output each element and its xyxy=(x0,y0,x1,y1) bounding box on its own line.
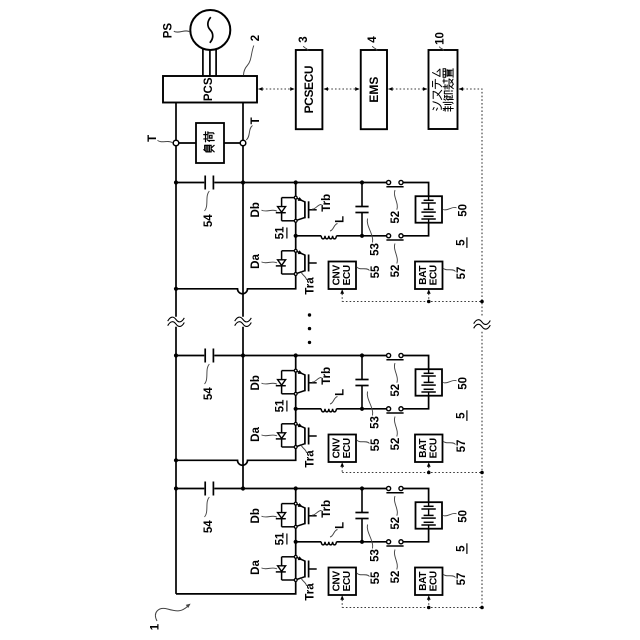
dashed communication line PCS-PCSECU xyxy=(258,87,294,91)
wire midpoint rail (unit 2) xyxy=(296,396,429,409)
diode Db xyxy=(282,503,295,505)
label Trb (unit 2) xyxy=(312,367,333,385)
svg-text:55: 55 xyxy=(370,438,382,451)
break symbol bus right xyxy=(235,317,252,322)
label Da (unit 2) xyxy=(250,427,277,442)
label 57 (unit 3) xyxy=(443,573,468,586)
transistor Trb xyxy=(294,196,316,222)
relay switch 52 (unit 1 upper) xyxy=(386,180,403,186)
break symbol bus left xyxy=(168,317,185,322)
label Tra (unit 2) xyxy=(301,444,316,468)
label 51 (unit 2) xyxy=(274,399,287,412)
node: control bus junctions (unit 3) xyxy=(427,606,484,610)
transistor Trb xyxy=(294,502,316,528)
battery 50 xyxy=(416,196,443,223)
diode Db xyxy=(282,197,295,199)
transistor Trb xyxy=(294,369,316,395)
label 5 (unit 2) xyxy=(455,410,467,421)
battery ECU (unit 1) xyxy=(415,262,443,290)
wire DC- bottom rail (unit 3) xyxy=(176,581,296,594)
label 54 (unit 2) xyxy=(203,364,215,400)
svg-text:Trb: Trb xyxy=(321,500,333,518)
label 52 lower (unit 2) xyxy=(390,417,402,451)
diode Da xyxy=(282,250,295,252)
capacitor 54 (unit 3) xyxy=(205,482,213,496)
svg-text:PCS: PCS xyxy=(203,77,215,101)
svg-text:51: 51 xyxy=(274,532,286,545)
PCS power conditioning system box 2 xyxy=(163,76,257,103)
converter ECU 56 (unit 2) xyxy=(329,435,357,463)
svg-text:EMS: EMS xyxy=(367,77,381,103)
svg-text:1: 1 xyxy=(149,623,161,630)
svg-text:2: 2 xyxy=(250,35,262,41)
node: top rail junctions (unit 3) xyxy=(174,486,364,490)
label 2 xyxy=(244,35,263,76)
svg-text:57: 57 xyxy=(456,573,468,586)
node: mid rail junctions (unit 3) xyxy=(294,540,365,544)
label Tra (unit 1) xyxy=(301,271,316,295)
svg-text:ECU: ECU xyxy=(342,571,353,591)
label 5 (unit 3) xyxy=(455,543,467,554)
inductor L (unit 3) xyxy=(321,542,336,545)
capacitor 53 (unit 2) xyxy=(355,356,368,409)
label 52 lower (unit 1) xyxy=(390,244,402,278)
svg-text:ECU: ECU xyxy=(429,438,440,458)
svg-text:55: 55 xyxy=(370,571,382,584)
capacitor 54 (unit 1) xyxy=(205,176,213,190)
label 52 lower (unit 3) xyxy=(390,550,402,584)
relay switch 52 (unit 3 lower) xyxy=(386,540,403,546)
svg-text:ECU: ECU xyxy=(342,438,353,458)
svg-text:55: 55 xyxy=(370,265,382,278)
label T left xyxy=(147,135,173,143)
node: bottom rail junction (unit 2) xyxy=(174,458,178,462)
dashed communication line EMS-system xyxy=(388,87,427,91)
wire AC bus right (node V) xyxy=(242,103,244,489)
battery 50 xyxy=(416,502,443,529)
wire DC+ top rail (unit 1) xyxy=(176,183,429,197)
terminal T right xyxy=(240,140,246,146)
label Db (unit 3) xyxy=(250,508,277,523)
transistor Tra xyxy=(294,249,316,275)
svg-text:Da: Da xyxy=(250,254,262,269)
label 53 (unit 1) xyxy=(367,219,381,256)
dashed control lines ECU to bus (unit 1) xyxy=(340,289,482,301)
label Db (unit 1) xyxy=(250,202,277,217)
svg-text:51: 51 xyxy=(274,399,286,412)
wire midpoint rail (unit 1) xyxy=(296,223,429,236)
svg-text:BAT: BAT xyxy=(418,572,429,591)
svg-text:Trb: Trb xyxy=(321,367,333,385)
svg-text:ECU: ECU xyxy=(342,265,353,285)
svg-text:5: 5 xyxy=(455,239,467,246)
svg-text:53: 53 xyxy=(370,416,382,429)
label 55 (unit 2) xyxy=(357,438,382,451)
transistor Tra xyxy=(294,555,316,581)
label 50 (unit 2) xyxy=(443,377,470,390)
diode Da xyxy=(282,556,295,558)
label 57 (unit 2) xyxy=(443,440,468,453)
label 50 (unit 3) xyxy=(443,510,470,523)
relay switch 52 (unit 1 lower) xyxy=(386,234,403,240)
inductor L label (unit 1) xyxy=(330,216,347,231)
svg-text:57: 57 xyxy=(456,440,468,453)
svg-text:52: 52 xyxy=(390,384,402,397)
svg-text:50: 50 xyxy=(458,377,470,390)
svg-text:5: 5 xyxy=(455,412,467,419)
label 51 (unit 1) xyxy=(274,226,287,239)
inductor L (unit 2) xyxy=(321,409,336,412)
svg-text:53: 53 xyxy=(370,243,382,256)
capacitor 54 (unit 2) xyxy=(205,349,213,363)
capacitor 53 (unit 1) xyxy=(355,183,368,236)
label Trb (unit 3) xyxy=(312,500,333,518)
wire DC+ top rail (unit 3) xyxy=(176,489,429,503)
wire DC+ top rail (unit 2) xyxy=(176,356,429,370)
svg-text:L: L xyxy=(335,522,347,529)
svg-text:Db: Db xyxy=(250,375,262,390)
svg-text:4: 4 xyxy=(367,36,379,43)
node: top rail junctions (unit 2) xyxy=(174,353,364,357)
wire 3-phase PS to PCS xyxy=(203,49,216,76)
label 52 upper (unit 3) xyxy=(390,496,402,529)
svg-text:52: 52 xyxy=(390,571,402,584)
svg-text:5: 5 xyxy=(455,545,467,552)
label 4 xyxy=(367,36,379,51)
dashed control bus xyxy=(459,87,482,607)
battery ECU (unit 2) xyxy=(415,435,443,463)
diode Db xyxy=(282,370,295,372)
svg-text:L: L xyxy=(335,389,347,396)
inductor L (unit 1) xyxy=(321,236,336,239)
node: control bus junctions (unit 2) xyxy=(427,471,484,475)
svg-text:CNV: CNV xyxy=(332,571,343,592)
dashed communication line PCSECU-EMS xyxy=(324,87,360,91)
svg-text:Trb: Trb xyxy=(321,194,333,212)
node: mid rail junctions (unit 2) xyxy=(294,407,365,411)
svg-text:Da: Da xyxy=(250,427,262,442)
svg-text:52: 52 xyxy=(390,211,402,224)
svg-text:3: 3 xyxy=(298,36,310,42)
label 54 (unit 1) xyxy=(203,191,215,227)
wire DC- bottom rail (unit 1) xyxy=(176,275,296,293)
system control unit box 10 xyxy=(429,50,458,129)
label 57 (unit 1) xyxy=(443,267,468,280)
capacitor 53 (unit 3) xyxy=(355,489,368,542)
svg-text:57: 57 xyxy=(456,267,468,280)
svg-text:52: 52 xyxy=(390,517,402,530)
label 54 (unit 3) xyxy=(203,497,215,533)
svg-text:50: 50 xyxy=(458,204,470,217)
svg-text:54: 54 xyxy=(203,214,215,227)
svg-text:10: 10 xyxy=(435,32,447,45)
label 55 (unit 3) xyxy=(357,571,382,584)
label Da (unit 1) xyxy=(250,254,277,269)
battery ECU (unit 3) xyxy=(415,568,443,596)
wire load to terminals xyxy=(179,142,240,144)
diode Da xyxy=(282,423,295,425)
svg-text:Da: Da xyxy=(250,560,262,575)
label 50 (unit 1) xyxy=(443,204,470,217)
wire DC- bottom rail (unit 2) xyxy=(176,448,296,465)
node: control bus junctions (unit 1) xyxy=(427,300,484,304)
vertical ellipsis (repeated units) xyxy=(308,313,311,344)
svg-text:L: L xyxy=(335,216,347,223)
EMS box 4 xyxy=(361,50,387,129)
svg-text:54: 54 xyxy=(203,520,215,533)
wire AC bus left (node U) xyxy=(175,103,177,594)
terminal T left xyxy=(173,140,179,146)
relay switch 52 (unit 3 upper) xyxy=(386,486,403,492)
relay switch 52 (unit 2 lower) xyxy=(386,407,403,413)
svg-text:BAT: BAT xyxy=(418,266,429,285)
node: mid rail junctions (unit 1) xyxy=(294,234,365,238)
svg-text:ECU: ECU xyxy=(429,571,440,591)
inductor L label (unit 2) xyxy=(330,389,347,404)
battery 50 xyxy=(416,369,443,396)
label 51 (unit 3) xyxy=(274,532,287,545)
svg-text:52: 52 xyxy=(390,265,402,278)
svg-text:53: 53 xyxy=(370,549,382,562)
svg-text:54: 54 xyxy=(203,387,215,400)
svg-text:CNV: CNV xyxy=(332,265,343,286)
svg-text:52: 52 xyxy=(390,438,402,451)
converter ECU 56 (unit 1) xyxy=(329,262,357,290)
dashed control lines ECU to bus (unit 3) xyxy=(340,595,482,607)
label 55 (unit 1) xyxy=(357,265,382,278)
svg-text:Db: Db xyxy=(250,202,262,217)
load box (fuka) xyxy=(196,123,224,163)
inductor L label (unit 3) xyxy=(330,522,347,537)
label 1 (system) xyxy=(149,604,190,631)
label 10 xyxy=(435,32,447,50)
label T right xyxy=(246,117,262,140)
svg-text:PCSECU: PCSECU xyxy=(302,66,316,114)
label 53 (unit 3) xyxy=(367,525,381,562)
transistor Tra xyxy=(294,422,316,448)
PCSECU box 3 xyxy=(296,50,323,129)
label 52 upper (unit 1) xyxy=(390,190,402,223)
AC power source PS xyxy=(190,10,230,50)
label 5 (unit 1) xyxy=(455,237,467,248)
svg-text:50: 50 xyxy=(458,510,470,523)
label 53 (unit 2) xyxy=(367,392,381,429)
svg-text:PS: PS xyxy=(163,23,175,39)
wire IGBT leg stubs (unit 2) xyxy=(295,356,297,446)
svg-text:ECU: ECU xyxy=(429,265,440,285)
break symbol control bus xyxy=(474,320,491,325)
svg-text:T: T xyxy=(250,117,262,124)
wire IGBT leg stubs (unit 1) xyxy=(295,183,297,273)
dashed control lines ECU to bus (unit 2) xyxy=(340,462,482,472)
label Da (unit 3) xyxy=(250,560,277,575)
label Db (unit 2) xyxy=(250,375,277,390)
converter ECU 56 (unit 3) xyxy=(329,568,357,596)
wire midpoint rail (unit 3) xyxy=(296,529,429,542)
node: top rail junctions (unit 1) xyxy=(174,180,364,184)
label 52 upper (unit 2) xyxy=(390,363,402,396)
svg-text:CNV: CNV xyxy=(332,438,343,459)
label 3 xyxy=(298,36,310,50)
svg-text:BAT: BAT xyxy=(418,439,429,458)
label PS xyxy=(163,23,190,39)
label Trb (unit 1) xyxy=(312,194,333,212)
svg-text:51: 51 xyxy=(274,226,286,239)
svg-text:Db: Db xyxy=(250,508,262,523)
label Tra (unit 3) xyxy=(301,577,316,601)
node: bottom rail junction (unit 1) xyxy=(174,287,178,291)
wire IGBT leg stubs (unit 3) xyxy=(295,489,297,579)
relay switch 52 (unit 2 upper) xyxy=(386,353,403,359)
